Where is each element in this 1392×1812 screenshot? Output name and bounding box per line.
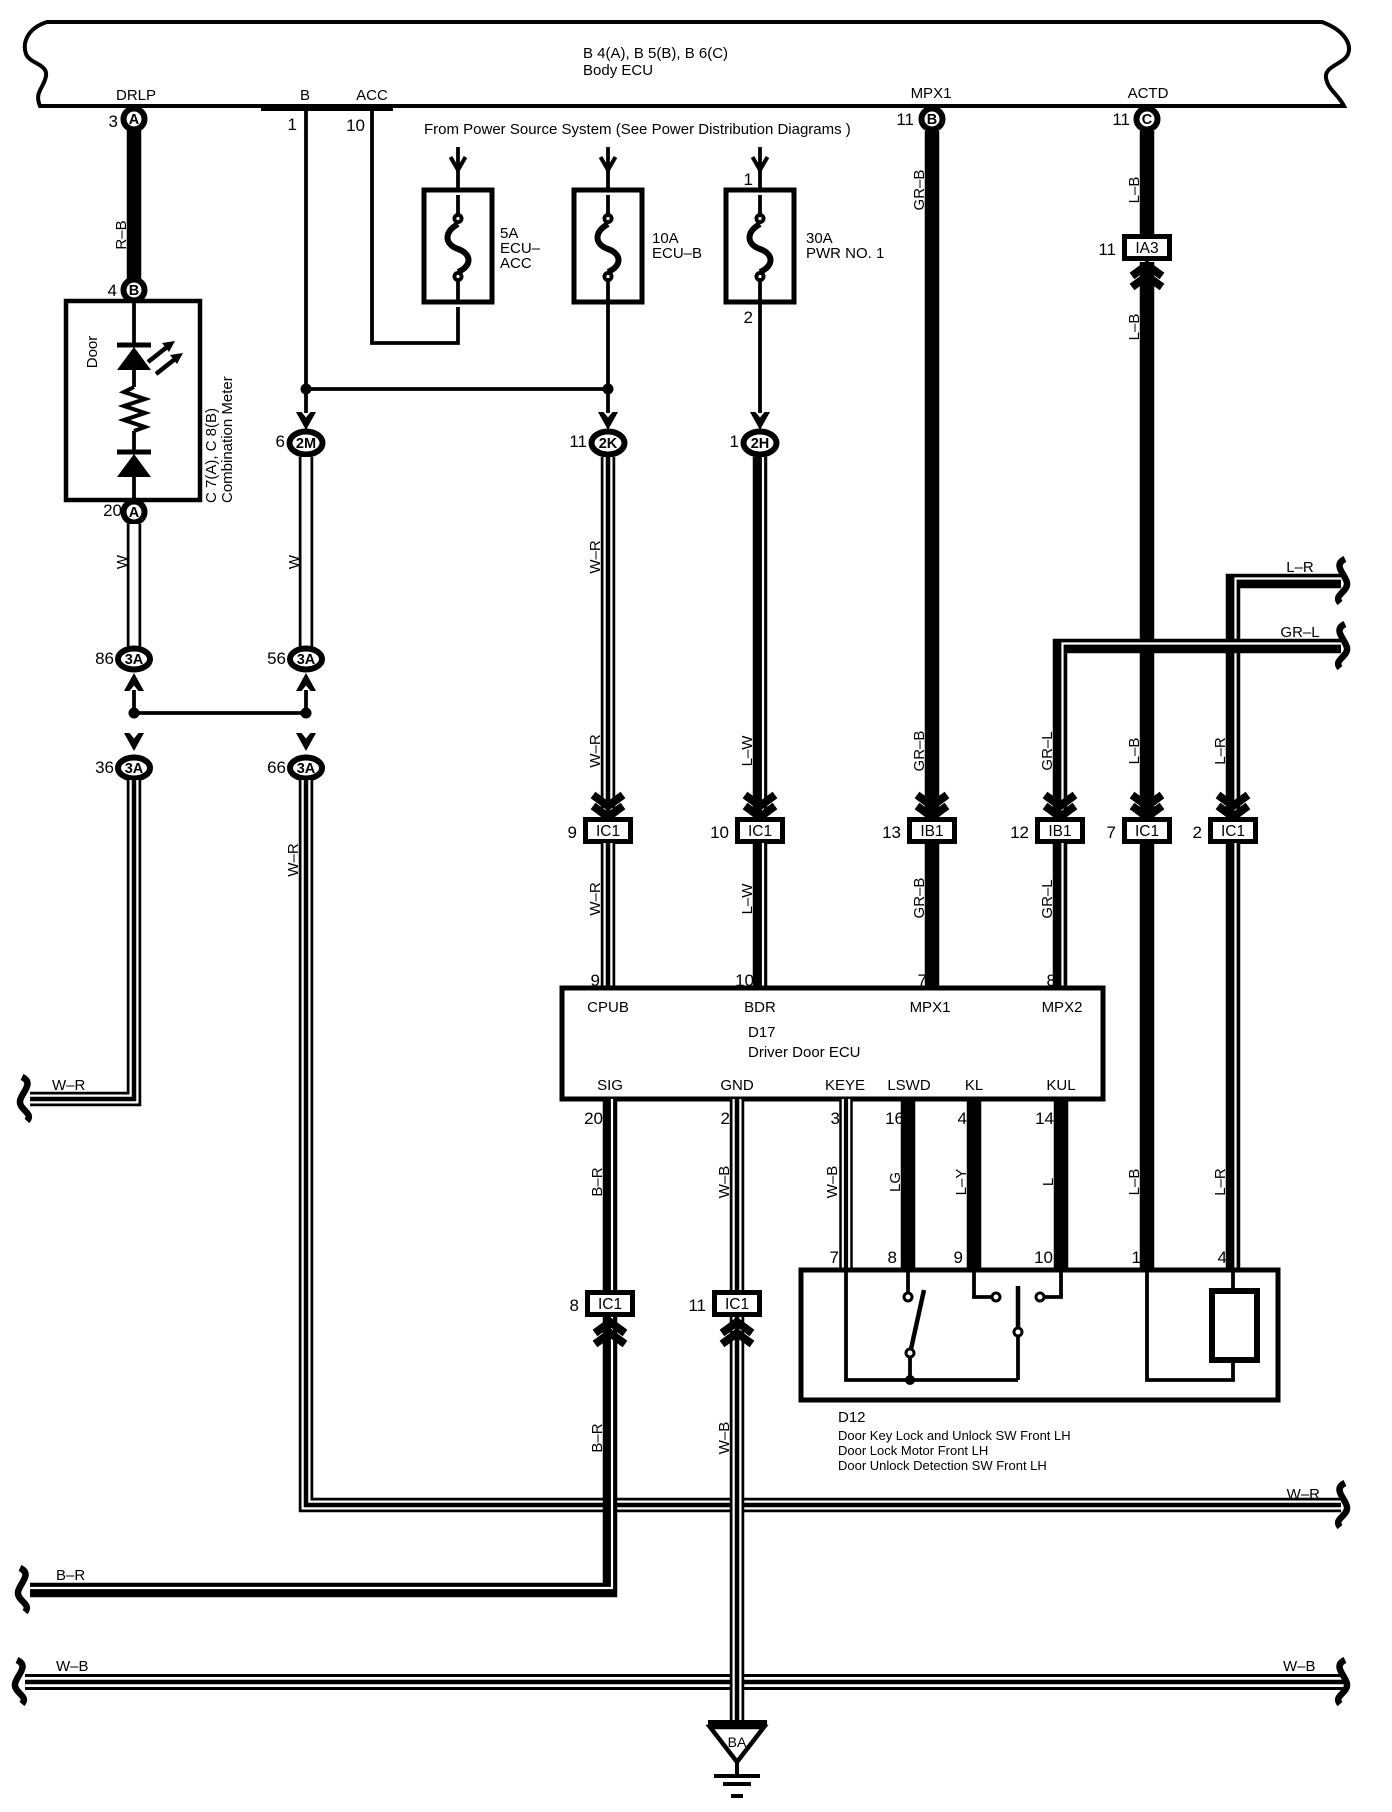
svg-text:MPX2: MPX2 [1042, 999, 1083, 1016]
Body ECU band [25, 22, 1349, 106]
svg-text:11: 11 [688, 1296, 706, 1315]
svg-text:7: 7 [830, 1248, 839, 1267]
svg-text:C: C [1142, 112, 1153, 128]
wire GR-B from IB1 to D17 MPX1 [925, 843, 940, 986]
svg-text:66: 66 [267, 758, 286, 777]
svg-text:2K: 2K [599, 436, 618, 452]
wire [304, 690, 308, 713]
wire B-R from IC1-8 to left edge rail [30, 1317, 610, 1590]
svg-text:A: A [129, 112, 140, 128]
arrow chevrons into IC1-10 [745, 795, 775, 817]
ground rail W-B [25, 1674, 1345, 1690]
svg-text:W–R: W–R [285, 843, 302, 877]
wire tie B to ECU-B [306, 387, 608, 391]
wire R-B from DRLP pin 3A to combination meter [127, 128, 142, 280]
svg-text:W: W [114, 554, 131, 569]
break symbol left B-R [18, 1568, 27, 1612]
svg-text:W–R: W–R [587, 540, 604, 574]
arrow up into 3A-56 [296, 673, 316, 691]
connector IC1 pin 2 [1211, 820, 1256, 842]
svg-text:PWR NO. 1: PWR NO. 1 [806, 245, 884, 262]
svg-text:LG: LG [887, 1172, 904, 1192]
wire L-B from IA3 down to IC1 [1140, 262, 1155, 820]
svg-text:13: 13 [882, 823, 901, 842]
svg-text:SIG: SIG [597, 1077, 623, 1094]
svg-text:10: 10 [1034, 1248, 1053, 1267]
svg-text:2M: 2M [296, 436, 316, 452]
svg-text:2: 2 [744, 308, 753, 327]
wire inside meter [132, 301, 136, 345]
svg-text:9: 9 [568, 823, 577, 842]
wire L-B from IC1 to D12 pin 1 [1140, 843, 1155, 1271]
arrow down into 2H [750, 412, 770, 430]
svg-text:From Power Source System (See: From Power Source System (See Power Dist… [424, 121, 851, 138]
svg-text:W–B: W–B [716, 1166, 733, 1199]
svg-text:B: B [300, 87, 310, 104]
svg-text:L–W: L–W [739, 883, 756, 915]
wire GR-L from right edge to IB1-12 [1060, 646, 1341, 820]
wire W-B from IC1-11 to ground BA [730, 1317, 745, 1722]
svg-text:KUL: KUL [1046, 1077, 1075, 1094]
svg-text:Driver Door ECU: Driver Door ECU [748, 1044, 861, 1061]
arrow chevrons into IC1-2 [1218, 795, 1248, 817]
svg-text:36: 36 [95, 758, 114, 777]
svg-text:1: 1 [730, 432, 739, 451]
junction dot [129, 708, 140, 719]
wire [304, 389, 308, 413]
svg-text:GR–L: GR–L [1280, 624, 1319, 641]
svg-text:3A: 3A [125, 652, 144, 668]
svg-text:1: 1 [1132, 1248, 1141, 1267]
svg-text:B–R: B–R [589, 1167, 606, 1196]
svg-text:Door: Door [84, 336, 101, 369]
svg-text:IB1: IB1 [920, 823, 943, 840]
wire fuse 10A to junction [606, 281, 610, 389]
svg-text:11: 11 [569, 432, 587, 451]
svg-text:IC1: IC1 [725, 1296, 749, 1313]
svg-text:4: 4 [958, 1109, 967, 1128]
wire from pin 7 inside D12 [846, 1272, 1018, 1380]
svg-text:D12: D12 [838, 1409, 866, 1426]
key lock and unlock switch contacts [974, 1272, 991, 1297]
connector oval 3A pin 36 [118, 758, 150, 779]
wire L from D17 KUL pin 14 to D12 pin 10 [1054, 1099, 1069, 1271]
wire L-B from ACTD to IA3 [1140, 131, 1155, 236]
svg-text:1: 1 [288, 115, 297, 134]
svg-text:ACC: ACC [500, 255, 532, 272]
connector oval 2H pin 1 [744, 432, 777, 455]
wire W-R from 2K to IC1 [601, 457, 616, 820]
svg-text:11: 11 [1112, 110, 1130, 129]
wire pin 4 to motor [1231, 1272, 1235, 1291]
svg-text:B–R: B–R [56, 1567, 85, 1584]
svg-text:GR–L: GR–L [1039, 879, 1056, 918]
connector IC1 pin 7 [1125, 820, 1170, 842]
svg-text:3A: 3A [297, 761, 316, 777]
svg-text:L–R: L–R [1286, 559, 1314, 576]
break symbol right GR-L [1338, 624, 1347, 668]
arrow chevrons into IB1-12 [1045, 795, 1075, 817]
junction dot [301, 384, 312, 395]
svg-text:B 4(A), B 5(B), B 6(C): B 4(A), B 5(B), B 6(C) [583, 45, 728, 62]
svg-text:R–B: R–B [113, 220, 130, 249]
svg-text:IC1: IC1 [1135, 823, 1159, 840]
arrow chevrons into IC1-7 [1132, 795, 1162, 817]
junction dot [301, 708, 312, 719]
svg-text:8: 8 [570, 1296, 579, 1315]
connector IB1 pin 13 [910, 820, 955, 842]
svg-text:L: L [1040, 1178, 1057, 1186]
wire GR-L from IB1 to D17 MPX2 [1053, 843, 1068, 986]
connector IA3 pin 11 [1125, 237, 1170, 259]
key lock-unlock detection switch [906, 1272, 910, 1292]
svg-text:L–B: L–B [1126, 177, 1143, 204]
break symbol right W-R rail [1338, 1483, 1347, 1527]
ECU D17 Driver Door ECU [562, 988, 1103, 1099]
svg-text:GR–B: GR–B [911, 170, 928, 211]
connector oval 3A pin 66 [290, 758, 322, 779]
wire W-B thin from D17 KEYE pin 3 to D12 pin 7 [839, 1099, 853, 1271]
svg-text:2H: 2H [751, 436, 770, 452]
terminal circle A pin 20 [124, 502, 145, 523]
connector IB1 pin 12 [1038, 820, 1083, 842]
arrow chevrons up into IA3 [1132, 265, 1162, 287]
connector oval 3A pin 86 [118, 649, 150, 670]
connector oval 2K pin 11 [592, 432, 625, 455]
LED indicator Door [117, 343, 151, 348]
svg-text:B–R: B–R [589, 1423, 606, 1452]
svg-text:12: 12 [1010, 823, 1029, 842]
terminal circle A pin 3 [124, 109, 145, 130]
wire W-B from D17 GND pin 2 to IC1-11 [730, 1099, 745, 1293]
connector IC1 pin 10 [738, 820, 783, 842]
resistor in meter [124, 387, 145, 431]
svg-text:GR–B: GR–B [911, 731, 928, 772]
arrow up into 3A-86 [124, 673, 144, 691]
wire [132, 431, 136, 452]
svg-text:56: 56 [267, 649, 286, 668]
svg-text:GND: GND [720, 1077, 754, 1094]
fuse 5A ECU-ACC [424, 190, 492, 302]
svg-text:BA: BA [728, 1734, 747, 1750]
svg-text:IC1: IC1 [748, 823, 772, 840]
arrow down into 2K [606, 389, 610, 413]
svg-text:14: 14 [1035, 1109, 1054, 1128]
svg-text:L–B: L–B [1126, 314, 1143, 341]
wire L-W from 2H to IC1 [753, 457, 768, 820]
svg-text:GR–L: GR–L [1039, 731, 1056, 770]
switch pole [1016, 1286, 1021, 1328]
svg-text:Door Key Lock and Unlock SW Fr: Door Key Lock and Unlock SW Front LH [838, 1428, 1071, 1443]
svg-text:W–R: W–R [52, 1077, 86, 1094]
svg-text:11: 11 [1098, 240, 1116, 259]
wire W from meter pin 20 to junction 3A [127, 524, 142, 647]
connector oval 3A pin 56 [290, 649, 322, 670]
svg-text:IC1: IC1 [1221, 823, 1245, 840]
ground symbol BA [708, 1720, 767, 1727]
svg-text:A: A [129, 505, 140, 521]
arrow chevrons into IC1-9 [593, 795, 623, 817]
svg-text:LSWD: LSWD [887, 1077, 931, 1094]
wire B pin1 down to junction [304, 110, 308, 389]
break symbol left W-B rail [15, 1660, 24, 1704]
arrow down into 3A-36 [124, 733, 144, 751]
arrow chevrons into IB1-13 [917, 795, 947, 817]
svg-text:3: 3 [831, 1109, 840, 1128]
svg-text:L–Y: L–Y [953, 1169, 970, 1196]
svg-text:16: 16 [885, 1109, 904, 1128]
arrow chevrons up into IC1-8 [595, 1322, 625, 1344]
power feed arrow to fuse 30A [758, 147, 762, 191]
svg-text:20: 20 [584, 1109, 603, 1128]
diode in meter [117, 450, 151, 455]
wire W-R from 3A-36 to left edge [30, 780, 134, 1099]
svg-text:MPX1: MPX1 [910, 999, 951, 1016]
wire ACC pin10 loop to fuse 5A [372, 110, 458, 343]
svg-text:Combination Meter: Combination Meter [219, 376, 236, 503]
wire LG from D17 LSWD pin 16 to D12 pin 8 [901, 1099, 916, 1271]
connector IC1 pin 9 [586, 820, 631, 842]
fuse 30A PWR NO.1 [726, 190, 794, 302]
wire W from 2M to 3A-56 [299, 457, 314, 647]
wire W-R from 3A-66 to right edge rail [306, 780, 1341, 1505]
wire [132, 690, 136, 713]
junction dot [603, 384, 614, 395]
svg-text:IC1: IC1 [598, 1296, 622, 1313]
power feed arrow to fuse 5A [456, 147, 460, 191]
wire GR-B from MPX1 to IB1 [925, 131, 940, 820]
svg-text:4: 4 [1218, 1248, 1227, 1267]
svg-text:1: 1 [744, 170, 753, 189]
svg-text:10: 10 [346, 116, 365, 135]
svg-text:4: 4 [108, 281, 117, 300]
connector IC1 pin 8 [588, 1293, 633, 1315]
connector oval 2M pin 6 [290, 432, 323, 455]
arrow chevrons up into IC1-11 [722, 1322, 752, 1344]
svg-text:11: 11 [896, 110, 914, 129]
svg-text:IA3: IA3 [1135, 240, 1158, 257]
svg-text:L–B: L–B [1126, 738, 1143, 765]
svg-text:L–B: L–B [1126, 1169, 1143, 1196]
svg-text:ECU–B: ECU–B [652, 245, 702, 262]
svg-text:W–R: W–R [1287, 1486, 1321, 1503]
svg-text:3A: 3A [125, 761, 144, 777]
svg-text:Door Lock Motor Front LH: Door Lock Motor Front LH [838, 1443, 988, 1458]
svg-text:86: 86 [95, 649, 114, 668]
svg-text:W–B: W–B [56, 1658, 89, 1675]
svg-text:W–R: W–R [587, 882, 604, 916]
connector IC1 pin 11 [715, 1293, 760, 1315]
svg-text:W–R: W–R [587, 734, 604, 768]
wire fuse 30A down [758, 281, 762, 413]
terminal circle C pin 11 ACTD [1137, 109, 1158, 130]
terminal circle B pin 11 MPX1 [922, 109, 943, 130]
svg-text:10: 10 [710, 823, 729, 842]
wire L-W from IC1 to D17 BDR [753, 843, 768, 986]
svg-text:2: 2 [1193, 823, 1202, 842]
svg-text:6: 6 [276, 432, 285, 451]
svg-text:7: 7 [1107, 823, 1116, 842]
svg-text:ACTD: ACTD [1128, 85, 1169, 102]
junction dot [905, 1375, 915, 1385]
break symbol left W-R [20, 1077, 29, 1121]
power feed arrow to fuse 10A [606, 147, 610, 191]
svg-text:B: B [129, 283, 139, 299]
svg-text:Body ECU: Body ECU [583, 62, 653, 79]
combination meter box C7(A) C8(B) [66, 301, 200, 500]
svg-text:3A: 3A [297, 652, 316, 668]
svg-text:L–R: L–R [1212, 1168, 1229, 1196]
svg-text:DRLP: DRLP [116, 87, 156, 104]
door lock motor [1212, 1291, 1257, 1360]
wire L-R from IC1 to D12 pin 4 [1226, 843, 1241, 1271]
svg-text:GR–B: GR–B [911, 878, 928, 919]
break symbol right W-B rail [1338, 1660, 1347, 1704]
svg-text:20: 20 [103, 501, 122, 520]
switch assembly D12 box [801, 1270, 1278, 1400]
svg-text:IB1: IB1 [1048, 823, 1071, 840]
wire [132, 370, 136, 387]
break symbol right L-R [1338, 559, 1347, 603]
arrow down into 2M [296, 412, 316, 430]
svg-text:L–W: L–W [739, 735, 756, 767]
svg-text:MPX1: MPX1 [911, 85, 952, 102]
wire L-R from right edge to IC1-2 [1233, 581, 1341, 820]
svg-text:8: 8 [888, 1248, 897, 1267]
svg-text:IC1: IC1 [596, 823, 620, 840]
arrow down into 3A-66 [296, 733, 316, 751]
wire from pin 1 to motor [1147, 1272, 1233, 1380]
svg-text:Door Unlock Detection SW Front: Door Unlock Detection SW Front LH [838, 1458, 1047, 1473]
svg-text:BDR: BDR [744, 999, 776, 1016]
svg-text:W: W [286, 554, 303, 569]
svg-text:ACC: ACC [356, 87, 388, 104]
wire L-Y from D17 KL pin 4 to D12 pin 9 [967, 1099, 982, 1271]
svg-text:B: B [927, 112, 937, 128]
wire tie [134, 711, 306, 715]
wire W-R from IC1 to D17 CPUB [601, 843, 616, 986]
svg-text:CPUB: CPUB [587, 999, 629, 1016]
svg-text:C 7(A), C 8(B): C 7(A), C 8(B) [203, 408, 220, 503]
svg-text:D17: D17 [748, 1024, 776, 1041]
svg-text:KL: KL [965, 1077, 983, 1094]
svg-text:9: 9 [954, 1248, 963, 1267]
svg-text:W–B: W–B [1283, 1658, 1316, 1675]
svg-text:W–B: W–B [716, 1422, 733, 1455]
terminal circle B pin 4 [124, 280, 145, 301]
wire B-R from D17 SIG pin 20 to IC1-8 [603, 1099, 618, 1293]
wire [132, 477, 136, 499]
svg-text:2: 2 [721, 1109, 730, 1128]
fuse 10A ECU-B [574, 190, 642, 302]
svg-text:KEYE: KEYE [825, 1077, 865, 1094]
terminal pad bar under B and ACC [261, 104, 393, 111]
svg-text:L–R: L–R [1212, 737, 1229, 765]
svg-text:W–B: W–B [824, 1166, 841, 1199]
svg-text:3: 3 [109, 112, 118, 131]
